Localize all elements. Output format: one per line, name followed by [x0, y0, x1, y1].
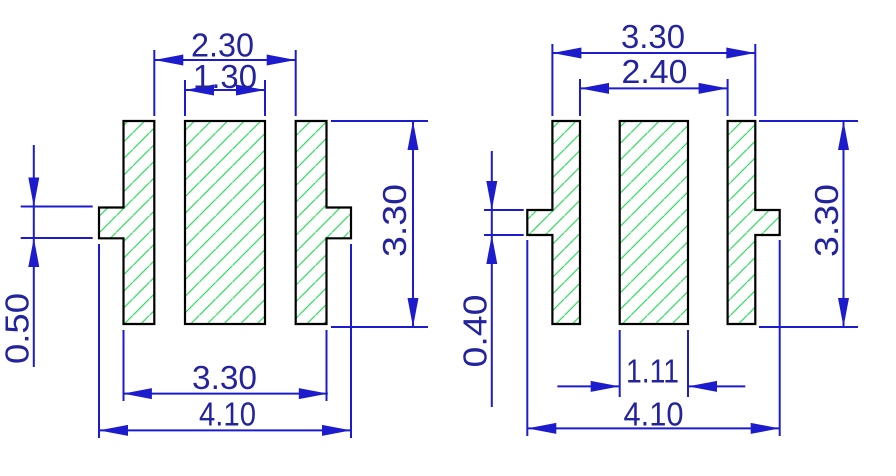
- dimension 1.11 arrow left (points right): [591, 381, 620, 392]
- left pad of right land pattern (hatched, with left tab): [527, 121, 580, 324]
- dimension 3.30 (right figure top) arrow right: [726, 48, 755, 59]
- dimension 3.30 (right figure top) extension line left: [551, 44, 553, 116]
- dimension 3.30 (left figure bottom) extension line right: [326, 330, 328, 401]
- dimension 3.30 (right figure top) text: [621, 18, 685, 55]
- dimension 3.30 (right figure height) line: [843, 121, 845, 327]
- dimension 4.10 (left figure) extension line left: [98, 244, 100, 438]
- dimension 2.30 extension line right: [295, 50, 297, 116]
- svg-text:2.40: 2.40: [622, 53, 688, 90]
- dimension 3.30 (left figure height) arrow bottom: [408, 298, 419, 327]
- dimension 4.10 (right figure) arrow left: [527, 423, 556, 434]
- dimension 1.11 extension line left: [619, 330, 621, 397]
- svg-text:0.40: 0.40: [457, 295, 494, 368]
- dimension 1.30 extension line left: [184, 80, 186, 116]
- dimension 3.30 (left figure height) arrow top: [408, 121, 419, 150]
- right pad of right land pattern (hatched, with right tab): [728, 121, 780, 324]
- svg-text:3.30: 3.30: [621, 18, 685, 55]
- right pad of left land pattern (hatched, with right tab): [296, 121, 351, 324]
- dimension 2.40 text: [622, 53, 688, 90]
- svg-text:0.50: 0.50: [0, 293, 36, 364]
- dimension 2.30 arrow right: [267, 55, 296, 66]
- dimension 3.30 (right figure height) arrow bottom: [838, 298, 849, 327]
- dimension 3.30 (right figure height) extension line top: [759, 120, 858, 122]
- center pad of right land pattern (hatched): [620, 121, 688, 324]
- dimension 1.30 line: [185, 89, 265, 91]
- svg-text:4.10: 4.10: [624, 396, 684, 433]
- svg-text:1.30: 1.30: [193, 58, 257, 95]
- dimension 0.40 arrow bottom: [486, 235, 497, 264]
- dimension 2.40 extension line left: [579, 79, 581, 116]
- dimension 3.30 (left figure bottom) arrow right: [299, 388, 328, 399]
- dimension 4.10 (left figure) arrow right: [322, 425, 351, 436]
- dimension 3.30 (left figure bottom) arrow left: [123, 388, 152, 399]
- dimension 0.50 arrow bottom: [28, 238, 39, 267]
- dimension 0.40 extension line bottom: [484, 234, 524, 236]
- dimension 2.30 arrow left: [154, 55, 183, 66]
- dimension 0.50 line: [33, 145, 35, 367]
- dimension 3.30 (right figure height) arrow top: [838, 121, 849, 150]
- dimension 3.30 (left figure bottom) text: [192, 359, 257, 396]
- dimension 0.50 text: [0, 293, 36, 364]
- svg-text:3.30: 3.30: [808, 184, 845, 257]
- dimension 1.11 arrow right (points left): [688, 381, 717, 392]
- dimension 2.40 arrow left: [580, 83, 609, 94]
- dimension 4.10 (left figure) extension line right: [350, 244, 352, 438]
- dimension 3.30 (right figure top) line: [552, 52, 755, 54]
- dimension 1.11 leader line left: [557, 385, 619, 387]
- dimension 1.11 text: [626, 353, 679, 390]
- dimension 4.10 (left figure) text: [199, 396, 256, 433]
- dimension 3.30 (left figure height) line: [412, 121, 414, 327]
- dimension 0.40 arrow top: [486, 181, 497, 210]
- dimension 0.50 arrow top: [28, 178, 39, 207]
- dimension 4.10 (right figure) text: [624, 396, 684, 433]
- dimension 1.11 leader line right: [688, 385, 745, 387]
- dimension 4.10 (left figure) arrow left: [99, 425, 128, 436]
- dimension 1.30 text: [193, 58, 257, 95]
- dimension 1.11 extension line right: [687, 330, 689, 397]
- dimension 3.30 (left figure bottom) extension line left: [123, 330, 125, 401]
- dimension 0.50 extension line top: [21, 206, 93, 208]
- dimension 2.40 extension line right: [727, 79, 729, 116]
- dimension 2.30 extension line left: [153, 50, 155, 116]
- dimension 4.10 (right figure) line: [527, 427, 779, 429]
- dimension 1.30 arrow left: [185, 85, 214, 96]
- svg-text:3.30: 3.30: [192, 359, 257, 396]
- dimension 2.30 text: [191, 27, 254, 64]
- dimension 4.10 (left figure) line: [99, 429, 351, 431]
- dimension 3.30 (right figure height) extension line bottom: [759, 326, 858, 328]
- center pad of left land pattern (hatched): [185, 121, 265, 324]
- dimension 3.30 (right figure top) extension line right: [754, 44, 756, 116]
- dimension 3.30 (right figure height) text: [808, 184, 845, 257]
- dimension 4.10 (right figure) extension line left: [526, 240, 528, 436]
- dimension 3.30 (left figure height) text: [376, 184, 413, 257]
- dimension 2.30 line: [154, 59, 295, 61]
- dimension 2.40 line: [580, 87, 728, 89]
- dimension 0.40 extension line top: [484, 209, 524, 211]
- svg-text:1.11: 1.11: [626, 353, 679, 390]
- dimension 1.30 extension line right: [264, 80, 266, 116]
- dimension 4.10 (right figure) extension line right: [779, 240, 781, 436]
- left pad of left land pattern (hatched, with left tab): [99, 121, 154, 324]
- dimension 0.40 line: [491, 151, 493, 407]
- svg-text:3.30: 3.30: [376, 184, 413, 257]
- svg-text:4.10: 4.10: [199, 396, 256, 433]
- dimension 3.30 (left figure height) extension line top: [331, 120, 428, 122]
- dimension 0.40 text: [457, 295, 494, 368]
- dimension 1.30 arrow right: [236, 85, 265, 96]
- dimension 3.30 (right figure top) arrow left: [552, 48, 581, 59]
- dimension 3.30 (left figure height) extension line bottom: [331, 326, 428, 328]
- dimension 3.30 (left figure bottom) line: [123, 393, 328, 395]
- dimension 2.40 arrow right: [699, 83, 728, 94]
- dimension 0.50 extension line bottom: [21, 237, 93, 239]
- dimension 4.10 (right figure) arrow right: [751, 423, 780, 434]
